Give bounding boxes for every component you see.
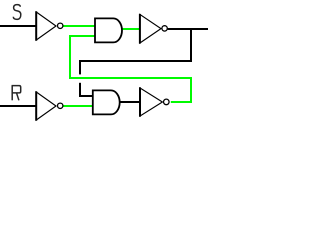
node S label bbox=[13, 5, 20, 20]
inverter U4 bbox=[139, 87, 169, 116]
node R label bbox=[12, 85, 21, 100]
wire AND2 output (black) to U4 input bbox=[120, 101, 141, 103]
inverter U3 (R input) bbox=[35, 91, 63, 120]
wire feedback green: long horizontal run left bbox=[69, 77, 192, 79]
wire feedback Q-bar black: vertical drop from Q wire bbox=[190, 28, 192, 62]
wire U1 output green to AND1 input 1 bbox=[63, 25, 95, 27]
and-gate AND1 bbox=[95, 18, 122, 42]
wire R input bbox=[0, 105, 37, 107]
wire AND1 output green to U2 input bbox=[123, 28, 140, 30]
wire feedback Q-bar black: vertical to AND2 input (upper part, breaks at green crossing) bbox=[79, 60, 81, 74]
wire S input bbox=[0, 25, 37, 27]
wire feedback Q-bar black: horizontal run bbox=[79, 60, 192, 62]
and-gate AND2 bbox=[93, 90, 120, 114]
wire feedback Q-bar black: horizontal into AND2 input 1 bbox=[79, 95, 94, 97]
wire U3 output green to AND2 input 2 bbox=[63, 105, 93, 107]
wire feedback Q-bar black: vertical to AND2 input (lower part) bbox=[79, 83, 81, 97]
wire feedback green: vertical rise to AND1 input level bbox=[69, 35, 71, 79]
wire feedback green: U4 output run right bbox=[171, 101, 192, 103]
inverter U2 bbox=[139, 14, 167, 44]
wire feedback green: horizontal into AND1 input 2 bbox=[69, 35, 95, 37]
wire Q output (black) from U2 to right edge bbox=[168, 28, 208, 30]
wire feedback green: vertical rise on right bbox=[190, 77, 192, 103]
inverter U1 (S input) bbox=[35, 11, 63, 40]
